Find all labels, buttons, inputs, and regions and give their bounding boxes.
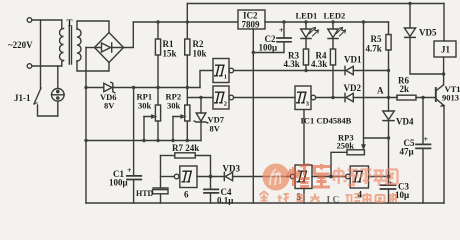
ground bus xyxy=(86,202,444,204)
gate5 xyxy=(295,165,312,189)
resistor R6 xyxy=(396,95,398,97)
relay J1 box xyxy=(434,41,456,57)
svg-text:R5: R5 xyxy=(371,34,382,44)
wire top terminal to primary xyxy=(32,19,62,21)
gate1 input riser xyxy=(200,71,213,88)
svg-text:LED1: LED1 xyxy=(296,11,318,21)
top bus xyxy=(187,3,444,5)
capacitor C4 xyxy=(210,177,212,189)
diode VD1 xyxy=(345,66,353,74)
svg-text:VD3: VD3 xyxy=(223,164,241,174)
wire switch bottom xyxy=(38,105,58,116)
secondary top lead to bridge xyxy=(77,21,109,33)
gate6 input wire xyxy=(197,176,224,178)
svg-text:4.3k: 4.3k xyxy=(284,59,300,69)
bell top lead xyxy=(57,66,59,88)
svg-text:6: 6 xyxy=(184,190,189,200)
resistor R2 xyxy=(186,22,188,39)
transformer T primary lead top xyxy=(61,20,63,29)
svg-text:4.7k: 4.7k xyxy=(366,44,382,54)
svg-text:10k: 10k xyxy=(193,49,207,59)
glyph gate4 xyxy=(352,171,363,182)
J1 collector lead xyxy=(443,57,445,74)
svg-text:I: I xyxy=(327,196,331,206)
gate1 xyxy=(213,59,229,83)
diode VD4 xyxy=(383,111,395,120)
glyph gate1 xyxy=(214,65,225,76)
svg-text:T: T xyxy=(67,18,73,28)
HTD lead xyxy=(160,156,162,189)
svg-text:9013: 9013 xyxy=(442,93,459,103)
C1 top lead xyxy=(133,88,135,176)
bridge inner diode xyxy=(95,43,124,52)
rail VD6 left xyxy=(86,87,104,89)
gate2 input wire xyxy=(187,97,213,99)
resistor R3 xyxy=(303,49,308,65)
svg-text:4.3k: 4.3k xyxy=(311,59,327,69)
switch J1-1 blade xyxy=(34,88,41,104)
top bus riser xyxy=(186,4,188,23)
transistor VT1 xyxy=(435,88,437,101)
gate3 xyxy=(295,86,311,110)
svg-text:47μ: 47μ xyxy=(400,147,414,157)
gate1 output wire xyxy=(234,70,345,72)
RP3 left lead xyxy=(331,152,347,176)
pot RP2 xyxy=(185,105,190,121)
glyph gate3 xyxy=(296,92,307,103)
IC2 output wire xyxy=(265,21,389,23)
svg-text:10μ: 10μ xyxy=(395,190,409,200)
bridge rectifier diamond xyxy=(95,33,124,63)
resistor R1 xyxy=(157,22,159,39)
svg-text:J1: J1 xyxy=(441,45,451,55)
svg-text:250k: 250k xyxy=(337,141,355,151)
wire switch tap vertical xyxy=(40,20,42,88)
svg-text:LED2: LED2 xyxy=(324,11,346,21)
gate glyphs xyxy=(181,65,363,182)
switch arrowhead xyxy=(34,101,37,104)
svg-text:30k: 30k xyxy=(138,101,152,111)
ground rail mid xyxy=(86,140,201,142)
diode VD2 xyxy=(345,93,353,101)
IC2 box xyxy=(238,10,265,29)
bridge plus riser xyxy=(124,22,134,48)
IC2 gnd line xyxy=(252,29,254,203)
svg-text:+: + xyxy=(279,26,284,35)
capacitor C5 xyxy=(416,144,431,148)
LED1 xyxy=(305,22,307,29)
diode VD3 xyxy=(224,172,232,180)
rail VD6 right xyxy=(113,87,200,89)
terminal top xyxy=(27,18,32,23)
transformer primary coil xyxy=(60,29,64,61)
svg-text:100μ: 100μ xyxy=(259,43,278,53)
pot RP1 xyxy=(155,105,160,121)
svg-text:C: C xyxy=(333,196,340,206)
capacitor C1 xyxy=(127,176,141,180)
svg-text:30k: 30k xyxy=(167,101,181,111)
zener VD6 xyxy=(104,83,112,91)
capacitor C3 xyxy=(381,185,396,189)
svg-text:R7 24k: R7 24k xyxy=(172,143,199,153)
svg-text:A: A xyxy=(377,86,384,96)
glyph gate6 xyxy=(181,171,192,182)
gate2 xyxy=(213,86,229,109)
LED2 xyxy=(332,22,334,29)
transformer secondary coil xyxy=(77,29,81,61)
gate2 to gate3 wire xyxy=(234,97,295,99)
svg-text:2k: 2k xyxy=(400,84,410,94)
svg-text:7809: 7809 xyxy=(242,20,261,30)
bell circle xyxy=(52,89,65,102)
svg-text:+: + xyxy=(424,135,429,144)
svg-text:J1-1: J1-1 xyxy=(14,93,31,103)
glyph gate5 xyxy=(297,171,308,182)
R5 pull line xyxy=(362,22,365,149)
svg-text:+: + xyxy=(127,166,132,175)
zener VD7 xyxy=(200,98,202,114)
pot RP3 xyxy=(347,150,364,155)
glyph gate2 xyxy=(214,92,225,103)
svg-text:2: 2 xyxy=(224,101,227,108)
piezo HTD xyxy=(153,187,168,189)
gate3 output wire xyxy=(316,97,345,99)
bell bottom lead xyxy=(57,101,59,116)
svg-text:VD2: VD2 xyxy=(344,83,362,93)
svg-text:~220V: ~220V xyxy=(8,40,33,50)
svg-text:15k: 15k xyxy=(163,49,177,59)
svg-text:VD1: VD1 xyxy=(344,55,362,65)
C2 stub xyxy=(253,22,284,53)
gate4 output wire xyxy=(369,176,389,178)
resistor R7 xyxy=(161,155,175,157)
bridge minus lead left xyxy=(86,47,95,49)
svg-text:0.1μ: 0.1μ xyxy=(217,196,233,206)
watermark xyxy=(260,164,398,206)
transformer primary lead bottom xyxy=(62,61,64,67)
gate5 bottom lead xyxy=(303,189,305,204)
svg-text:IC1 CD4584B: IC1 CD4584B xyxy=(301,116,352,126)
gate5 to gate4 wire xyxy=(312,176,346,178)
svg-text:8V: 8V xyxy=(104,101,115,111)
svg-text:HTD: HTD xyxy=(136,189,154,198)
svg-text:100μ: 100μ xyxy=(109,178,128,188)
svg-text:1: 1 xyxy=(224,74,227,81)
C5 lead xyxy=(422,98,424,144)
secondary bottom lead to bridge xyxy=(77,61,109,71)
svg-text:8V: 8V xyxy=(210,124,221,134)
left ground vertical xyxy=(85,48,87,204)
capacitor C2 xyxy=(277,38,291,42)
svg-text:R1: R1 xyxy=(163,39,174,49)
transformer core xyxy=(69,26,71,64)
svg-text:VD4: VD4 xyxy=(396,117,414,127)
gate6 xyxy=(180,166,197,188)
gate3-gate5 link xyxy=(303,110,305,166)
diode VD5 xyxy=(409,4,411,29)
svg-text:VD5: VD5 xyxy=(419,28,437,38)
gate4 xyxy=(350,166,368,188)
gate6 output wire xyxy=(161,176,175,178)
wire bottom terminal to primary xyxy=(32,65,62,67)
resistor R4 xyxy=(330,49,335,65)
svg-text:R2: R2 xyxy=(193,39,204,49)
resistor R5 xyxy=(388,22,390,35)
rail +V to IC2 xyxy=(133,21,238,23)
terminal bottom xyxy=(27,64,32,69)
